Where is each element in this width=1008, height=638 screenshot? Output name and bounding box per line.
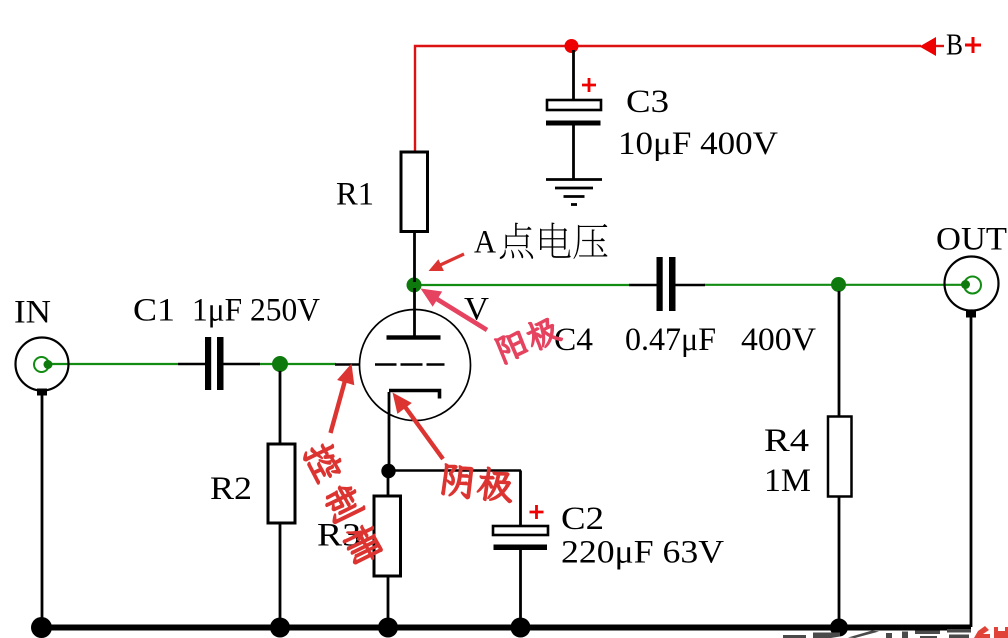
wire green C1 to grid node <box>259 363 336 365</box>
capacitor C2 <box>493 526 548 535</box>
wire R2 to ground <box>279 523 282 624</box>
wire grid lead <box>335 363 360 366</box>
wire green IN to C1 <box>49 363 178 365</box>
wire OUT to ground <box>970 317 973 627</box>
tube cathode <box>389 391 440 399</box>
svg-text:10μF 400V: 10μF 400V <box>618 126 778 162</box>
svg-text:R1: R1 <box>336 177 374 213</box>
tube V envelope <box>360 310 471 421</box>
wire cathode node to R3 <box>387 471 390 497</box>
svg-text:OUT: OUT <box>936 222 1007 258</box>
tube grid dashes <box>375 363 397 366</box>
wire output node to R4 <box>838 291 841 418</box>
wire green C4 to OUT <box>704 284 963 286</box>
connector IN jack <box>16 338 69 391</box>
wire green anode node to C4 <box>414 284 629 286</box>
svg-text:B: B <box>946 27 963 62</box>
wire anode lead <box>413 288 416 336</box>
watermark fragment red <box>974 626 1008 638</box>
node junction dot IN ground <box>31 617 52 638</box>
wire IN to ground <box>41 395 44 624</box>
label cathode (阴极) <box>441 462 515 504</box>
wire cathode node to C2 top <box>519 471 522 527</box>
wire R1 to anode node <box>413 232 416 283</box>
label control grid (控制栅) <box>300 438 387 567</box>
wire cathode lead <box>388 392 391 471</box>
wire ground bus bottom <box>41 625 971 631</box>
svg-text:400V: 400V <box>741 322 816 358</box>
node junction dot R4 ground <box>830 619 848 637</box>
svg-text:A: A <box>474 225 496 261</box>
arrow cathode <box>403 404 443 459</box>
connector IN inner pin <box>34 357 49 372</box>
arrow anode <box>432 296 487 330</box>
wire R3 to ground <box>387 576 390 624</box>
svg-text:R2: R2 <box>210 471 252 507</box>
connector OUT jack <box>945 257 999 311</box>
svg-text:IN: IN <box>14 295 51 331</box>
node junction green at R4 tap <box>831 277 846 292</box>
resistor R3 <box>374 496 401 576</box>
wire B+ rail to C3 <box>572 50 575 100</box>
capacitor C3 polarity plus <box>582 78 596 92</box>
wire red stub at B+ label <box>934 45 944 47</box>
wire cathode node to C2 <box>389 469 522 472</box>
label anode (阳极) crimson <box>494 313 563 365</box>
wire grid node to R2 <box>279 371 282 445</box>
arrowhead B+ <box>920 37 937 56</box>
capacitor C4 <box>629 284 657 287</box>
arrow to node A <box>437 254 464 267</box>
capacitor C2 polarity plus <box>530 505 544 519</box>
capacitor C1 <box>178 363 205 366</box>
ground symbol <box>546 178 602 181</box>
node junction dot R2 ground <box>270 618 290 638</box>
svg-text:1μF 250V: 1μF 250V <box>192 293 320 329</box>
svg-text:R4: R4 <box>764 423 809 459</box>
node junction cathode <box>381 464 395 478</box>
resistor R4 <box>828 417 852 497</box>
node junction green grid node <box>272 356 288 372</box>
node junction dot R3 ground <box>378 618 398 638</box>
capacitor C3 <box>547 100 601 110</box>
svg-text:C1: C1 <box>133 293 175 329</box>
svg-text:0.47μF: 0.47μF <box>625 322 716 358</box>
resistor R2 <box>268 444 295 523</box>
tube anode plate <box>387 335 441 339</box>
svg-text:220μF 63V: 220μF 63V <box>561 535 724 571</box>
node junction dot C2 ground <box>511 618 531 638</box>
node junction red at C3 tap <box>565 39 579 53</box>
watermark fragment gray <box>783 629 971 638</box>
wire red B+ rail <box>415 46 921 151</box>
wire R4 to ground <box>838 497 841 625</box>
node A junction green anode <box>407 278 422 293</box>
svg-text:C2: C2 <box>561 501 604 537</box>
svg-text:1M: 1M <box>764 463 811 499</box>
arrow control grid <box>331 377 347 433</box>
svg-text:C3: C3 <box>626 84 669 120</box>
connector OUT inner pin <box>964 277 981 294</box>
resistor R1 <box>401 152 428 232</box>
